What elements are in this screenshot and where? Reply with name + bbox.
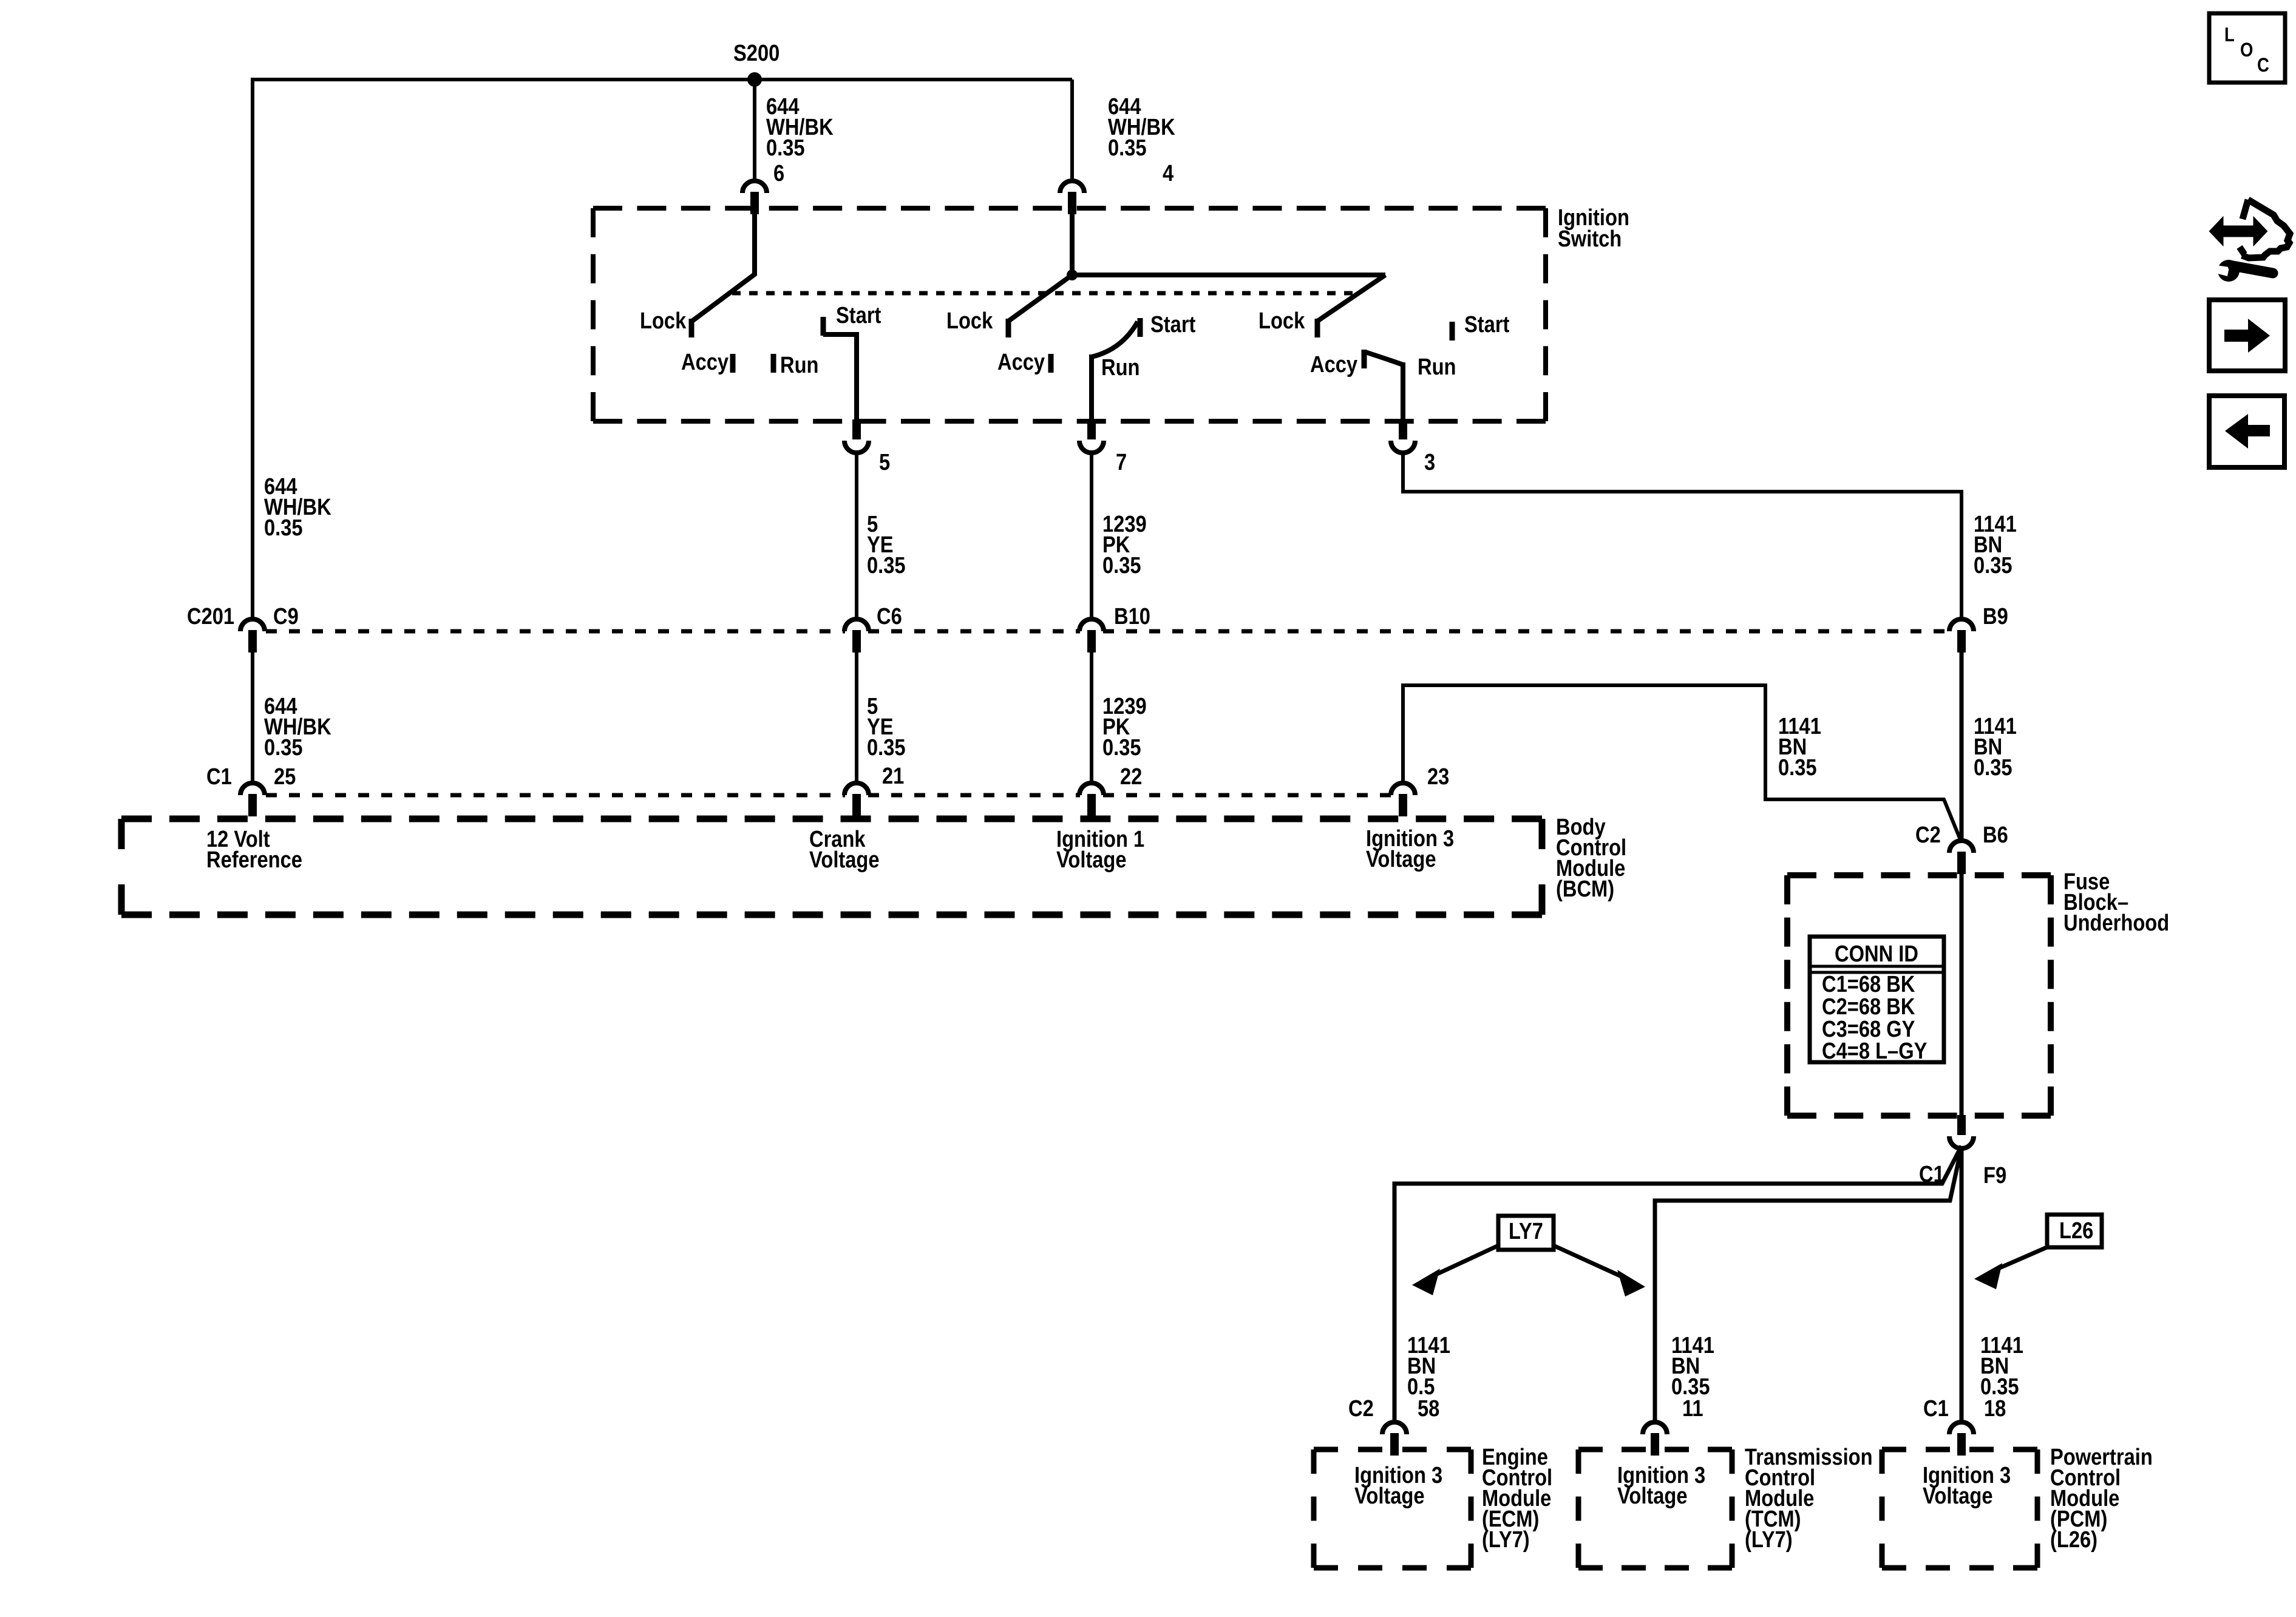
- svg-text:C1: C1: [206, 764, 232, 790]
- fuse block dashed box: [1787, 872, 2051, 878]
- dotted gang line inside switch: [732, 291, 1360, 296]
- L26 arrow: [1992, 1246, 2050, 1271]
- connector C9: [240, 619, 265, 631]
- svg-text:B6: B6: [1983, 822, 2008, 848]
- icon hand with wrench: [2240, 200, 2290, 258]
- wire B6 to F9 through fuse block: [1960, 873, 1964, 1118]
- contact Lock S2: [1006, 319, 1011, 337]
- contact Lock S3: [1315, 319, 1320, 337]
- icon LOC box: [2209, 13, 2285, 83]
- svg-text:B10: B10: [1114, 603, 1150, 629]
- wire to PCM: [1960, 1147, 1964, 1422]
- LY7 arrow right: [1554, 1246, 1628, 1280]
- svg-text:0.35: 0.35: [1974, 754, 2012, 781]
- ignition switch dashed box: [593, 206, 1546, 211]
- svg-text:11: 11: [1682, 1395, 1703, 1422]
- wire 1141 BN elbow to B9: [1403, 452, 1961, 618]
- contact Start S3: [1450, 322, 1455, 341]
- svg-text:B9: B9: [1983, 603, 2008, 629]
- connector line BCM (dotted) seg1: [266, 793, 845, 798]
- TCM dashed box: [1578, 1447, 1732, 1453]
- connector C2/B6: [1949, 841, 1974, 853]
- switch blade S2: [1008, 212, 1072, 321]
- svg-text:0.35: 0.35: [264, 515, 303, 541]
- svg-text:(BCM): (BCM): [1556, 876, 1614, 902]
- wire S2 drop: [1089, 354, 1094, 421]
- contact Start S2: [1138, 318, 1143, 337]
- wire Start S1 to pin 5: [823, 334, 857, 421]
- connector B9: [1949, 619, 1974, 631]
- svg-text:(L26): (L26): [2050, 1527, 2097, 1553]
- svg-text:Lock: Lock: [946, 308, 993, 334]
- svg-text:S200: S200: [733, 40, 779, 66]
- connector line BCM (dotted) seg2: [868, 793, 1080, 798]
- CONN ID table frame: [1810, 937, 1944, 1062]
- contact Run S1: [771, 354, 776, 373]
- switch blade S1: [692, 212, 755, 321]
- wire ignition3 elbow to B6: [1403, 685, 1961, 842]
- wire 644 left vertical to C201: [251, 78, 254, 619]
- wire S3 drop: [1401, 362, 1405, 421]
- connector pin 18: [1949, 1422, 1974, 1434]
- svg-text:Start: Start: [1150, 311, 1196, 337]
- svg-text:Accy: Accy: [1310, 351, 1357, 378]
- icon forward-arrow box: [2209, 300, 2285, 371]
- connector pin 6: [742, 181, 767, 193]
- contact Accy S3: [1362, 350, 1367, 368]
- svg-text:7: 7: [1116, 449, 1127, 475]
- svg-text:L26: L26: [2059, 1218, 2093, 1244]
- BCM dashed box: [121, 816, 1542, 822]
- LY7 arrow left: [1428, 1246, 1498, 1278]
- contact Start S1: [821, 317, 826, 336]
- connector pin 7: [1079, 441, 1104, 453]
- connector B10: [1079, 619, 1104, 631]
- svg-text:C2: C2: [1915, 822, 1941, 848]
- svg-text:(LY7): (LY7): [1745, 1527, 1793, 1553]
- svg-text:Run: Run: [1101, 354, 1140, 381]
- contact Accy S1: [730, 354, 736, 373]
- splice S200 junction dot: [747, 72, 762, 87]
- connector line BCM (dotted) seg3: [1103, 793, 1391, 798]
- svg-text:CONN ID: CONN ID: [1835, 941, 1918, 967]
- svg-text:0.35: 0.35: [1108, 135, 1147, 161]
- svg-text:(LY7): (LY7): [1482, 1527, 1530, 1553]
- svg-text:Switch: Switch: [1558, 226, 1622, 252]
- svg-text:LY7: LY7: [1509, 1218, 1543, 1244]
- svg-text:4: 4: [1163, 160, 1173, 186]
- svg-text:6: 6: [773, 160, 784, 186]
- connector line C201 (dotted) seg1: [266, 629, 845, 634]
- svg-text:Voltage: Voltage: [1056, 847, 1127, 873]
- wire 1239 PK middle: [1090, 653, 1093, 782]
- svg-text:Voltage: Voltage: [1354, 1483, 1425, 1509]
- svg-text:Voltage: Voltage: [809, 847, 880, 873]
- wire gang to S3: [1072, 273, 1385, 277]
- icon back-arrow box: [2209, 396, 2284, 467]
- svg-text:0.35: 0.35: [867, 734, 906, 761]
- svg-text:Run: Run: [780, 352, 818, 378]
- ECM dashed box: [1314, 1447, 1471, 1453]
- connector pin 21: [844, 783, 869, 795]
- connector line C201 (dotted) seg2: [868, 629, 1080, 634]
- svg-text:0.35: 0.35: [867, 552, 906, 578]
- svg-text:Accy: Accy: [997, 349, 1045, 375]
- svg-text:C9: C9: [273, 603, 299, 629]
- wire 644 middle: [251, 653, 254, 782]
- svg-text:Voltage: Voltage: [1366, 846, 1436, 872]
- svg-text:Reference: Reference: [206, 847, 302, 873]
- svg-text:Voltage: Voltage: [1923, 1483, 1993, 1509]
- LY7 callout box: [1498, 1216, 1554, 1250]
- wire 644 drop to pin 4: [1070, 80, 1074, 180]
- connector pin 25: [240, 783, 265, 795]
- svg-text:C6: C6: [877, 603, 902, 629]
- wire Run-Start curve S2 to pin 7: [1092, 322, 1138, 357]
- contact Lock S1: [689, 319, 695, 337]
- wire B9 to B6: [1960, 653, 1964, 840]
- wire 644 drop to pin 6: [753, 80, 756, 180]
- svg-text:58: 58: [1418, 1395, 1439, 1422]
- svg-text:0.35: 0.35: [264, 734, 303, 761]
- svg-text:23: 23: [1427, 764, 1449, 790]
- svg-text:C2: C2: [1348, 1395, 1374, 1422]
- svg-text:C: C: [2257, 55, 2269, 76]
- connector C1/F9: [1949, 1136, 1974, 1148]
- connector pin 58: [1382, 1422, 1407, 1434]
- svg-text:Accy: Accy: [681, 349, 729, 375]
- connector pin 11: [1643, 1422, 1667, 1434]
- connector pin 5: [844, 441, 869, 453]
- svg-text:Start: Start: [1464, 311, 1510, 337]
- connector pin 3: [1391, 441, 1415, 453]
- svg-text:Voltage: Voltage: [1617, 1483, 1688, 1509]
- connector pin 22: [1079, 783, 1104, 795]
- wire 5 YE to C6: [855, 452, 858, 618]
- connector pin 23: [1391, 783, 1415, 795]
- svg-text:O: O: [2240, 39, 2253, 61]
- connector pin 4: [1060, 181, 1084, 193]
- svg-text:C4=8 L–GY: C4=8 L–GY: [1822, 1038, 1927, 1064]
- svg-text:Underhood: Underhood: [2063, 910, 2169, 936]
- svg-text:0.35: 0.35: [766, 135, 805, 161]
- contact Accy S2: [1048, 354, 1054, 373]
- svg-text:0.35: 0.35: [1778, 754, 1817, 781]
- svg-text:21: 21: [882, 763, 904, 789]
- wire 1239 PK to B10: [1090, 452, 1093, 618]
- svg-text:22: 22: [1120, 764, 1142, 790]
- svg-text:C201: C201: [187, 603, 234, 629]
- wire Accy-Run curve S3 to pin 3: [1365, 352, 1403, 365]
- wire branch to ECM: [1394, 1146, 1961, 1422]
- connector line C201 (dotted) seg3: [1103, 629, 1950, 634]
- junction dot S2: [1067, 269, 1078, 280]
- svg-text:Lock: Lock: [640, 308, 687, 334]
- wire branch to TCM: [1655, 1147, 1961, 1422]
- switch blade S3: [1317, 275, 1385, 321]
- svg-text:F9: F9: [1983, 1162, 2006, 1188]
- connector C6: [844, 619, 869, 631]
- svg-text:0.35: 0.35: [1974, 552, 2012, 578]
- svg-text:Lock: Lock: [1258, 308, 1305, 334]
- svg-text:L: L: [2224, 24, 2235, 46]
- svg-text:C1: C1: [1923, 1395, 1949, 1422]
- svg-text:0.35: 0.35: [1102, 734, 1141, 761]
- PCM dashed box: [1882, 1447, 2037, 1453]
- wire main 644 horizontal from S200: [251, 78, 1072, 81]
- svg-text:18: 18: [1984, 1395, 2006, 1422]
- svg-text:Start: Start: [836, 302, 881, 328]
- svg-text:5: 5: [879, 449, 890, 475]
- L26 callout box: [2047, 1215, 2102, 1247]
- svg-text:3: 3: [1424, 449, 1435, 475]
- wire 5 YE middle: [855, 653, 858, 782]
- svg-text:0.35: 0.35: [1102, 552, 1141, 578]
- svg-text:25: 25: [274, 764, 296, 790]
- svg-text:Run: Run: [1418, 354, 1456, 380]
